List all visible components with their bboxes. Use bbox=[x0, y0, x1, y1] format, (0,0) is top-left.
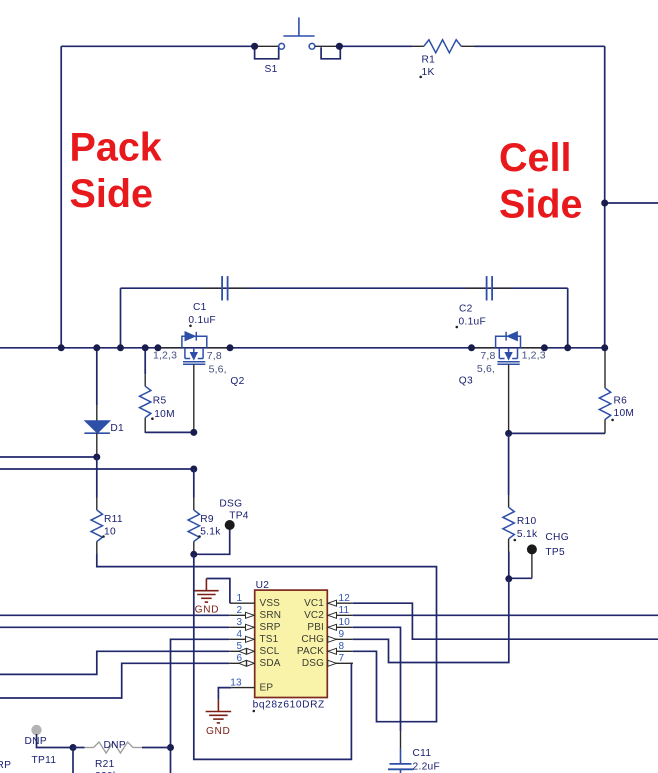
svg-text:2.2uF: 2.2uF bbox=[413, 762, 441, 773]
resistor R9 5.1k bbox=[188, 469, 221, 554]
label Pack Side bbox=[70, 126, 162, 217]
label Cell Side bbox=[499, 136, 582, 227]
wire cell tap lower (to Q2 gate net) bbox=[0, 468, 194, 470]
svg-text:RP: RP bbox=[0, 760, 11, 771]
pin 6 SDA bbox=[229, 653, 280, 669]
svg-text:9: 9 bbox=[339, 629, 345, 640]
ground GND (VSS) bbox=[194, 579, 219, 616]
node bus right vertical bbox=[601, 344, 608, 351]
transistor Q3 bbox=[459, 332, 546, 387]
svg-text:R6: R6 bbox=[614, 396, 628, 407]
testpoint TP5 CHG bbox=[509, 532, 569, 579]
node bus Q3 left pin bbox=[468, 344, 475, 351]
svg-text:Side: Side bbox=[499, 183, 582, 227]
svg-text:DSG: DSG bbox=[302, 658, 324, 669]
wire top-left vertical (Pack side) bbox=[60, 46, 62, 348]
svg-text:TP11: TP11 bbox=[32, 755, 57, 766]
wire SDA to left edge bbox=[0, 663, 229, 698]
svg-text:EP: EP bbox=[260, 682, 274, 693]
node bus left vertical bbox=[58, 344, 65, 351]
pin 2 SRN bbox=[229, 605, 281, 621]
wire VSS to GND bbox=[206, 579, 230, 604]
svg-text:C2: C2 bbox=[459, 304, 473, 315]
svg-text:Q3: Q3 bbox=[459, 376, 473, 387]
node bus Q2 left pin bbox=[154, 344, 161, 351]
svg-text:5,6,: 5,6, bbox=[477, 363, 495, 375]
svg-text:R10: R10 bbox=[517, 516, 537, 527]
svg-text:10: 10 bbox=[339, 617, 351, 628]
label RP (clipped) bbox=[0, 760, 11, 771]
wire CHG net to pin 9 bbox=[353, 579, 509, 663]
svg-text:10: 10 bbox=[104, 527, 116, 538]
wire Q3 gate down bbox=[508, 364, 510, 433]
node TS1/R21 bbox=[167, 744, 174, 751]
svg-text:Side: Side bbox=[70, 172, 153, 216]
svg-text:CHG: CHG bbox=[545, 532, 569, 543]
svg-text:VC2: VC2 bbox=[304, 610, 324, 621]
svg-text:10M: 10M bbox=[614, 408, 635, 419]
capacitor C11 2.2uF bbox=[388, 748, 440, 773]
svg-text:Pack: Pack bbox=[70, 126, 162, 170]
svg-text:PACK: PACK bbox=[297, 646, 324, 657]
ground GND (EP) bbox=[206, 700, 232, 737]
svg-text:0.1uF: 0.1uF bbox=[459, 317, 487, 328]
resistor R5 10M bbox=[140, 348, 175, 433]
svg-text:R5: R5 bbox=[153, 396, 167, 407]
resistor R6 10M bbox=[599, 348, 634, 434]
wire Q2 gate down bbox=[193, 364, 195, 432]
transistor Q2 bbox=[153, 332, 245, 387]
svg-text:S1: S1 bbox=[265, 64, 278, 75]
svg-text:5.1k: 5.1k bbox=[517, 529, 538, 540]
svg-text:R9: R9 bbox=[200, 514, 214, 525]
node gate net tap bbox=[190, 466, 197, 473]
node D1 bottom bbox=[93, 454, 100, 461]
node R9/TP4 bbox=[190, 551, 197, 558]
wire S1 to R1 bbox=[339, 45, 412, 47]
op-amp U2 bq28z610DRZ body bbox=[253, 580, 328, 712]
svg-text:TP4: TP4 bbox=[229, 511, 249, 522]
node TP11/R21 bbox=[70, 744, 77, 751]
svg-text:DSG: DSG bbox=[219, 499, 242, 510]
wire TS1 net down bbox=[171, 639, 230, 773]
resistor R11 10 bbox=[91, 457, 123, 554]
resistor R1 1K bbox=[412, 40, 475, 78]
capacitor C1 0.1uF bbox=[188, 276, 227, 327]
wire stub to right edge at PACK+ node bbox=[605, 202, 658, 204]
resistor R21 330k DNP bbox=[73, 740, 171, 773]
node bus D1 bbox=[93, 344, 100, 351]
node bus R5 bbox=[142, 344, 149, 351]
testpoint TP4 DSG bbox=[194, 499, 249, 555]
svg-text:4: 4 bbox=[237, 629, 243, 640]
wire SCL to left edge bbox=[0, 651, 229, 674]
pin 3 SRP bbox=[229, 617, 280, 633]
svg-text:1,2,3: 1,2,3 bbox=[522, 350, 546, 362]
svg-text:R21: R21 bbox=[95, 759, 115, 770]
svg-text:0.1uF: 0.1uF bbox=[188, 315, 216, 326]
node bus C1 bbox=[117, 344, 124, 351]
svg-text:7,8: 7,8 bbox=[480, 350, 495, 362]
svg-text:D1: D1 bbox=[110, 423, 124, 434]
svg-text:VC1: VC1 bbox=[304, 598, 324, 609]
node Q3 gate / R6 bbox=[505, 430, 512, 437]
svg-text:7: 7 bbox=[339, 653, 345, 664]
node S1 left bbox=[251, 43, 258, 50]
wire DSG net down-left leg bbox=[194, 554, 353, 759]
pin 9 CHG bbox=[301, 629, 352, 645]
wire node down to edge bbox=[72, 748, 74, 773]
svg-text:SRP: SRP bbox=[260, 622, 281, 633]
wire VC2 to right edge bbox=[353, 614, 658, 616]
svg-text:1: 1 bbox=[237, 593, 243, 604]
svg-text:R1: R1 bbox=[422, 55, 436, 66]
wire R6 to Q3 gate bbox=[509, 432, 605, 434]
svg-text:7,8: 7,8 bbox=[207, 350, 222, 362]
wire VC1 to right edge bbox=[353, 603, 658, 639]
svg-text:Cell: Cell bbox=[499, 136, 571, 180]
svg-text:CHG: CHG bbox=[301, 634, 324, 645]
node bus Q3 right pin bbox=[541, 344, 548, 351]
svg-text:5: 5 bbox=[237, 641, 243, 652]
wire capacitor rail bbox=[121, 288, 568, 348]
wire SRN to left edge bbox=[0, 614, 229, 616]
svg-text:R11: R11 bbox=[104, 514, 123, 525]
svg-text:6: 6 bbox=[237, 653, 243, 664]
svg-text:U2: U2 bbox=[256, 580, 270, 591]
svg-text:bq28z610DRZ: bq28z610DRZ bbox=[253, 700, 325, 711]
svg-text:12: 12 bbox=[339, 593, 351, 604]
pin 13 EP bbox=[230, 678, 273, 694]
node bus Q2 right pin bbox=[227, 344, 234, 351]
node Q2 gate / R5 bbox=[190, 429, 197, 436]
svg-text:SCL: SCL bbox=[260, 646, 280, 657]
switch S1 bbox=[255, 17, 341, 75]
node junction right vertical bbox=[601, 200, 608, 207]
pin 12 VC1 bbox=[304, 593, 353, 609]
wire PBI to C11 bbox=[353, 627, 401, 748]
testpoint TP11 DNP bbox=[25, 725, 74, 766]
svg-text:GND: GND bbox=[195, 604, 219, 615]
svg-text:5.1k: 5.1k bbox=[200, 527, 221, 538]
svg-text:10M: 10M bbox=[154, 409, 175, 420]
wire cell tap upper (to D1) bbox=[0, 456, 97, 458]
svg-text:DNP: DNP bbox=[104, 740, 126, 751]
diode D1 bbox=[84, 348, 124, 457]
svg-text:8: 8 bbox=[339, 641, 345, 652]
svg-text:13: 13 bbox=[230, 678, 242, 689]
pin 4 TS1 bbox=[229, 629, 278, 645]
svg-text:5,6,: 5,6, bbox=[209, 363, 227, 375]
svg-text:DNP: DNP bbox=[25, 736, 47, 747]
wire SRP to left edge bbox=[0, 626, 229, 628]
svg-text:C1: C1 bbox=[193, 302, 207, 313]
svg-text:TP5: TP5 bbox=[545, 547, 565, 558]
wire R5 to Q2 gate bbox=[145, 431, 194, 433]
wire top horizontal left segment bbox=[61, 45, 254, 47]
pin 5 SCL bbox=[229, 641, 279, 657]
svg-text:1K: 1K bbox=[422, 67, 435, 78]
svg-text:11: 11 bbox=[339, 605, 350, 616]
pin 11 VC2 bbox=[304, 605, 353, 621]
svg-text:C11: C11 bbox=[413, 748, 432, 759]
svg-text:3: 3 bbox=[237, 617, 243, 628]
svg-text:1,2,3: 1,2,3 bbox=[153, 350, 177, 362]
wire main bus bbox=[0, 347, 605, 349]
svg-text:GND: GND bbox=[206, 726, 230, 737]
node bus C2 bbox=[564, 344, 571, 351]
svg-text:2: 2 bbox=[237, 605, 243, 616]
node S1 right bbox=[336, 43, 343, 50]
capacitor C2 0.1uF bbox=[456, 276, 493, 328]
svg-text:PBI: PBI bbox=[307, 622, 324, 633]
svg-text:VSS: VSS bbox=[260, 598, 281, 609]
svg-text:TS1: TS1 bbox=[260, 634, 279, 645]
wire EP to GND bbox=[218, 688, 231, 700]
pin 10 PBI bbox=[307, 617, 352, 633]
pin 7 DSG bbox=[302, 653, 353, 669]
pin 8 PACK bbox=[297, 641, 353, 657]
wire R1 to right vertical (Cell side) bbox=[475, 46, 605, 348]
resistor R10 5.1k bbox=[503, 433, 538, 578]
svg-text:SDA: SDA bbox=[260, 658, 281, 669]
pin 1 VSS bbox=[230, 593, 280, 609]
wire R11 to PACK pin route bbox=[97, 554, 437, 722]
node R10/TP5 bbox=[505, 575, 512, 582]
svg-text:SRN: SRN bbox=[260, 610, 282, 621]
svg-text:Q2: Q2 bbox=[230, 376, 244, 387]
